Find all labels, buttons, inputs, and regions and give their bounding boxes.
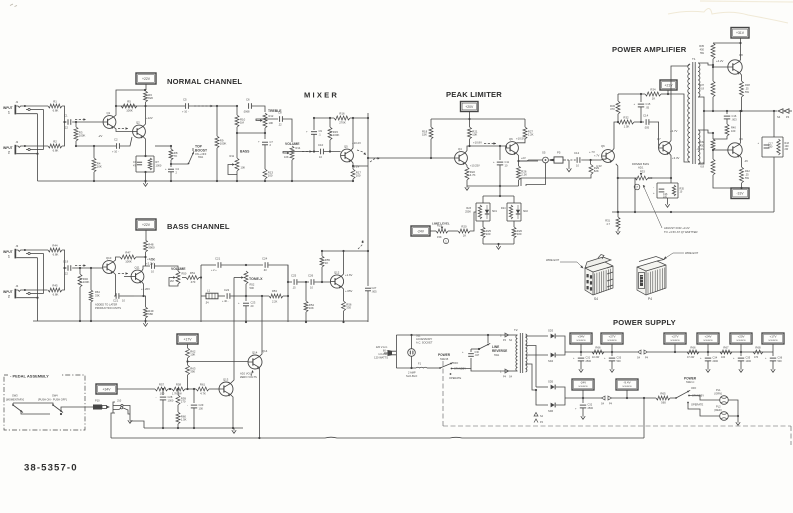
svg-text:PEAK LIMITER: PEAK LIMITER	[446, 90, 502, 99]
svg-text:POWER AMPLIFIER: POWER AMPLIFIER	[612, 45, 687, 54]
wire secondary bottom taps	[698, 130, 713, 133]
fuse F1 2 AMP SLO-BLO	[396, 367, 416, 369]
mid output rail	[713, 110, 774, 112]
transformer T2 core	[519, 333, 521, 373]
wire R20 to limit network	[470, 212, 476, 231]
svg-text:C3: C3	[133, 160, 137, 164]
svg-text:R33: R33	[640, 169, 645, 173]
capacitor C17 180	[764, 144, 770, 146]
svg-text:+31V: +31V	[736, 31, 745, 35]
svg-text:R58: R58	[176, 383, 182, 387]
wire C14 to Q7 base	[650, 122, 659, 148]
svg-text:100: 100	[356, 174, 361, 178]
source box -9.4V	[616, 379, 638, 390]
ground symbol bass channel	[145, 321, 147, 324]
svg-text:+4.2V: +4.2V	[716, 59, 724, 63]
svg-text:10K: 10K	[309, 306, 314, 310]
svg-text:270: 270	[181, 400, 186, 404]
svg-text:R31: R31	[605, 219, 610, 223]
svg-text:+20V: +20V	[737, 334, 744, 338]
svg-text:2.2K: 2.2K	[528, 133, 534, 137]
svg-text:C11: C11	[505, 160, 510, 164]
capacitor C16b 100	[659, 188, 665, 190]
resistor R65 560	[656, 396, 670, 400]
wire R61 to Q13 base	[209, 388, 219, 390]
wire R35 to Q8 base node	[713, 59, 728, 67]
wire -24V to R19	[430, 230, 436, 232]
limit network top split	[483, 195, 514, 197]
svg-text:1000: 1000	[156, 164, 162, 168]
wire SW2-C to lamps	[689, 396, 720, 401]
capacitor C34 2000	[707, 352, 709, 356]
svg-text:SW3: SW3	[12, 394, 18, 398]
svg-text:PL2: PL2	[716, 405, 721, 409]
wire fuse to power switch	[427, 367, 440, 369]
svg-text:R44: R44	[52, 244, 58, 248]
wire Q9 emitter to R42	[740, 156, 742, 168]
svg-text:100K: 100K	[83, 280, 90, 284]
wire +22V box to R6	[145, 84, 147, 90]
svg-text:C24: C24	[262, 257, 268, 261]
voltage box +34V pedal	[96, 384, 117, 394]
wire C11 down to limit network	[499, 165, 501, 196]
wire socket stubs	[411, 335, 413, 349]
wire tone-x wiper down to Q13	[234, 277, 239, 279]
wire Q14 collector up to tone-x middle rail	[259, 296, 262, 356]
svg-text:Q8: Q8	[739, 53, 743, 57]
capacitor C15 .05	[640, 94, 642, 102]
frame C16 R35 bias network	[670, 178, 672, 183]
svg-text:+ 2 +: + 2 +	[211, 269, 217, 272]
wire bass volume wiper to R51	[169, 278, 178, 287]
svg-text:-30.1V: -30.1V	[696, 147, 704, 151]
potentiometer R11 10K bass	[235, 158, 239, 171]
wire R62 to R63 node	[187, 358, 189, 365]
svg-text:500: 500	[617, 360, 622, 363]
capacitor C32 2500	[582, 398, 584, 403]
transistor Q12	[330, 275, 343, 288]
svg-text:R57: R57	[159, 383, 165, 387]
svg-text:C25: C25	[291, 274, 297, 278]
source box +27V	[601, 333, 623, 344]
resistor R38 .25 5W	[740, 81, 744, 97]
svg-text:-: -	[187, 403, 188, 407]
potentiometer R12 10K treble	[263, 113, 267, 128]
svg-text:5W: 5W	[745, 176, 749, 180]
svg-text:R61: R61	[200, 383, 206, 387]
resistor R35 450 5W	[711, 43, 715, 59]
svg-text:+.7V: +.7V	[594, 154, 600, 158]
wire R44/R45 join to C19	[62, 250, 67, 268]
svg-text:R45: R45	[52, 284, 58, 288]
wire Q2 base left to C2	[120, 137, 132, 146]
svg-text:SOURCE: SOURCE	[768, 340, 778, 342]
transistor Q5 mixer	[341, 149, 354, 162]
resistor R49 680	[144, 296, 146, 307]
svg-text:.005: .005	[644, 126, 650, 130]
svg-text:R64: R64	[95, 290, 100, 294]
svg-text:10K: 10K	[284, 155, 289, 159]
svg-text:180: 180	[768, 145, 773, 148]
wire output network to bus	[773, 157, 775, 212]
wire local ground to J10 line	[130, 421, 144, 428]
resistor R40 100	[726, 119, 728, 124]
connector pins transformer primary	[505, 333, 509, 337]
svg-text:C22: C22	[224, 288, 230, 292]
svg-text:250K: 250K	[465, 211, 471, 214]
positive rail	[565, 351, 637, 353]
resistor R9 100K	[216, 106, 218, 136]
svg-text:500: 500	[250, 286, 255, 290]
resistor R22 4.7K	[465, 167, 469, 180]
svg-text:2500: 2500	[586, 360, 592, 363]
resistor R5 100K	[121, 104, 137, 108]
frame R24 SD2	[507, 202, 521, 204]
svg-text:10 2W: 10 2W	[592, 356, 600, 359]
svg-text:C14: C14	[643, 114, 649, 118]
svg-text:R65: R65	[660, 392, 666, 396]
transistor Q13	[219, 382, 233, 396]
svg-text:R5: R5	[127, 100, 131, 104]
svg-text:+22V: +22V	[142, 77, 151, 81]
svg-text:1: 1	[8, 255, 10, 259]
resistor R54 10K	[305, 282, 307, 301]
resistor R26 100	[513, 221, 515, 227]
label PEDAL ASSEMBLY	[8, 372, 60, 378]
voltage box +21V	[660, 80, 677, 90]
transformer T1 core	[692, 62, 694, 164]
wire Q5 collector up	[351, 118, 353, 151]
resistor R47 100K	[120, 255, 136, 259]
svg-text:C10: C10	[318, 143, 324, 147]
wire C1 to Q1 base	[72, 121, 103, 123]
svg-text:6.8: 6.8	[700, 87, 704, 91]
svg-text:+ 10 -: + 10 -	[112, 150, 119, 154]
svg-text:Q6: Q6	[601, 144, 605, 148]
resistor R29 82K	[590, 160, 592, 165]
svg-text:10K: 10K	[472, 133, 477, 137]
svg-text:PRODUCTION UNITS: PRODUCTION UNITS	[95, 306, 121, 310]
voltage box +22V	[136, 73, 156, 84]
resistor R16 270K	[314, 117, 334, 119]
svg-text:270K: 270K	[339, 121, 346, 125]
AC plug	[384, 352, 388, 354]
wire +20V to rail	[469, 112, 471, 119]
svg-text:680: 680	[148, 312, 153, 316]
potentiometer R19 15K limit level	[436, 229, 448, 233]
wire R27 to Q6 collector	[516, 139, 525, 143]
signal flow arrow Q4 to Q6	[484, 143, 496, 145]
ground symbol bias network	[667, 202, 669, 205]
svg-text:C7: C7	[270, 140, 274, 144]
diode SD6	[551, 403, 555, 408]
svg-text:2: 2	[8, 295, 10, 299]
ground symbol limit network	[498, 244, 500, 247]
wire jack1 tip to R1	[47, 105, 50, 107]
svg-text:Q14: Q14	[262, 349, 268, 353]
svg-text:P10: P10	[95, 399, 100, 403]
source box -24V	[572, 379, 594, 390]
adjustment callout 7	[634, 184, 640, 190]
svg-text:-3V: -3V	[744, 159, 748, 163]
wire Q11 emitter down	[134, 282, 144, 297]
bass +20V rail to mixer rail	[322, 250, 368, 252]
jack S5	[543, 157, 549, 163]
svg-text:3900: 3900	[148, 246, 155, 250]
wire bottom rail to -31V box	[713, 175, 741, 188]
connector S6 P6 positive rail	[638, 350, 642, 354]
svg-text:C29: C29	[199, 403, 204, 407]
wire ground rail limiter	[467, 185, 519, 187]
svg-text:C6: C6	[246, 98, 250, 102]
svg-text:38-5357-0: 38-5357-0	[24, 463, 78, 474]
wire C5 to treble network	[189, 105, 237, 107]
svg-text:VOLUME: VOLUME	[285, 142, 300, 146]
svg-text:1K: 1K	[325, 261, 329, 265]
input jack J3 INPUT 1 bass	[15, 249, 17, 259]
wire C6 to treble pot	[252, 106, 265, 112]
main supply vertical	[395, 335, 397, 368]
svg-text:R2: R2	[53, 140, 57, 144]
svg-text:6.8K: 6.8K	[53, 109, 59, 113]
svg-text:R51: R51	[190, 271, 196, 275]
svg-text:OPERATE: OPERATE	[449, 376, 461, 380]
svg-text:C12: C12	[574, 151, 580, 155]
collector rail top	[713, 42, 741, 44]
wire J10 contacts	[123, 406, 130, 419]
potentiometer R33 500 driver bias	[635, 176, 648, 180]
svg-text:100: 100	[663, 196, 668, 199]
svg-text:R20: R20	[461, 225, 467, 229]
svg-text:+27V: +27V	[671, 334, 678, 338]
wire Q8 collector up	[740, 43, 741, 62]
svg-text:1000: 1000	[168, 398, 174, 402]
wire limiter output	[519, 160, 543, 161]
svg-text:15K: 15K	[437, 235, 442, 239]
limiter supply rail	[431, 118, 525, 120]
svg-text:.33: .33	[263, 268, 267, 272]
capacitor C4 2	[170, 164, 172, 167]
wire R18 bottom to input node	[430, 139, 432, 158]
voltage box +20V limiter	[461, 102, 479, 112]
bias wire y178	[618, 177, 635, 179]
transistor Q14	[248, 355, 262, 369]
svg-text:5W: 5W	[745, 90, 749, 94]
wire J10 sleeve down to main bus	[111, 413, 113, 438]
svg-text:1K: 1K	[463, 234, 467, 238]
accessory socket S11	[408, 349, 416, 357]
svg-text:Q11: Q11	[135, 266, 141, 270]
wire tone-x right rail	[287, 265, 289, 322]
wire T1 primary bottom return	[668, 94, 690, 162]
svg-text:ADDED TO LATER: ADDED TO LATER	[95, 303, 117, 307]
wire Q5 emitter to output node	[351, 161, 368, 167]
svg-text:SD6: SD6	[548, 409, 554, 413]
diode SD5	[551, 385, 555, 390]
transistor Q1	[103, 116, 116, 129]
svg-text:NORMAL CHANNEL: NORMAL CHANNEL	[167, 77, 242, 86]
resistor R60 1.5K	[177, 405, 179, 412]
wire jack ring link	[43, 110, 45, 150]
wire R21 to Q4 collector node	[469, 139, 471, 146]
capacitor C9 .1	[313, 118, 315, 130]
capacitor C19 .22	[67, 265, 69, 271]
capacitor C30 .047 line det	[470, 358, 472, 369]
svg-text:100K: 100K	[220, 142, 227, 146]
wire Q6pa emitter down	[616, 164, 618, 178]
ground bus bass channel	[33, 320, 368, 322]
svg-text:R35: R35	[699, 44, 704, 48]
svg-text:100: 100	[486, 232, 491, 236]
resistor R67 100	[720, 350, 732, 354]
resistor R1 6.8K	[48, 104, 62, 108]
resistor R66b 47 2W	[687, 350, 699, 354]
svg-text:SOURCE: SOURCE	[703, 340, 713, 342]
svg-text:1.5K: 1.5K	[624, 125, 630, 129]
capacitor C16 .003	[726, 111, 728, 114]
capacitor C2 10	[116, 143, 118, 149]
svg-text:Q1: Q1	[107, 111, 111, 115]
svg-text:SD5: SD5	[548, 380, 554, 384]
svg-text:2.2K: 2.2K	[272, 300, 278, 304]
svg-text:1.5K: 1.5K	[181, 418, 187, 422]
wire bass jack1 tip to R44	[47, 249, 50, 251]
svg-text:100K: 100K	[125, 260, 132, 264]
wire lamps to ground	[728, 400, 738, 416]
svg-text:4.3V: 4.3V	[596, 164, 602, 168]
wire Q2 emitter down	[143, 137, 146, 157]
resistor R20 1K	[448, 230, 458, 232]
svg-text:120 V.A.C.: 120 V.A.C.	[376, 345, 389, 349]
svg-text:P4: P4	[786, 115, 790, 119]
wire jack2 tip to R2	[47, 145, 50, 147]
wire input to Q4 base	[431, 157, 455, 159]
potentiometer R14 10K volume	[290, 146, 294, 160]
paper crease mark top right	[668, 8, 788, 23]
adjustment callout 1	[443, 238, 448, 243]
svg-text:OFF: OFF	[691, 386, 697, 390]
supply top line	[396, 334, 509, 336]
resistor R31 4.7	[617, 212, 619, 217]
svg-text:6.8K: 6.8K	[53, 149, 59, 153]
transistor Q6 limiter	[506, 142, 519, 155]
source box +24V	[697, 333, 719, 344]
transistor Q10	[103, 261, 116, 274]
svg-text:Q13: Q13	[223, 377, 229, 381]
resistor R56 330	[342, 301, 346, 311]
svg-text:C21: C21	[215, 257, 221, 261]
svg-text:SLO-BLO: SLO-BLO	[406, 374, 417, 378]
svg-text:L1: L1	[207, 289, 211, 293]
transistor Q2	[133, 125, 146, 138]
svg-text:R24: R24	[501, 207, 506, 210]
svg-text:SOURCE: SOURCE	[736, 340, 746, 342]
transistor Q8 output top	[728, 60, 742, 74]
resistor R48 3900	[144, 240, 148, 252]
wire switch to transformer	[452, 369, 510, 372]
svg-text:R52: R52	[250, 283, 255, 287]
svg-text:1000: 1000	[746, 360, 752, 363]
svg-text:R68: R68	[755, 346, 761, 350]
svg-text:S5: S5	[542, 151, 546, 155]
resistor R26a 2.2K	[518, 161, 520, 166]
resistor R17 100	[352, 166, 354, 169]
svg-text:R12: R12	[269, 114, 274, 118]
svg-text:1M: 1M	[240, 121, 245, 125]
svg-text:ADJ.: ADJ.	[638, 166, 644, 170]
svg-text:S11: S11	[416, 334, 421, 338]
wire C19 to Q10 base	[72, 267, 102, 269]
wire Q4 emitter down	[465, 163, 467, 167]
wire rail y106	[116, 105, 185, 107]
svg-text:100: 100	[268, 174, 273, 178]
svg-text:BASS CHANNEL: BASS CHANNEL	[167, 222, 230, 231]
capacitor C28 1000	[168, 388, 172, 390]
secondary taps	[526, 335, 549, 337]
svg-text:TONE-X: TONE-X	[249, 277, 263, 281]
svg-text:INPUT: INPUT	[3, 290, 13, 294]
svg-text:820: 820	[148, 96, 153, 100]
svg-text:C19: C19	[63, 260, 69, 264]
capacitor C29 100	[193, 389, 195, 403]
svg-text:+34V: +34V	[102, 387, 111, 391]
resistor R21 10K	[469, 119, 471, 127]
signal flow arrow after C5	[194, 105, 213, 107]
svg-text:SD1: SD1	[492, 210, 497, 213]
transistor Q4	[455, 152, 468, 165]
svg-text:+2.2V: +2.2V	[146, 262, 154, 266]
wire bass jack sleeves to bus	[37, 258, 39, 298]
svg-text:OPERATE: OPERATE	[691, 403, 703, 407]
wire R40 to Q9 base node	[713, 136, 727, 139]
frame R23 SD1	[476, 202, 490, 204]
svg-text:P4: P4	[648, 297, 652, 301]
svg-text:-9.4V: -9.4V	[623, 380, 630, 384]
voltage box +22V bass	[136, 219, 156, 230]
svg-text:R16: R16	[339, 112, 345, 116]
wire +34V to R57	[117, 388, 155, 390]
svg-text:Q6: Q6	[509, 137, 513, 141]
resistor R44 6.8K	[48, 248, 62, 252]
transistor Q11	[131, 270, 144, 283]
wire mixer output to peak limiter	[368, 157, 431, 159]
transformer T1 secondary bottom winding	[698, 130, 700, 164]
paper speck top left	[10, 4, 17, 7]
svg-text:DRIVER BIAS: DRIVER BIAS	[632, 162, 649, 166]
capacitor C21 10	[115, 293, 117, 299]
svg-text:REVERSE: REVERSE	[492, 349, 507, 353]
svg-text:.54: .54	[205, 301, 209, 305]
svg-text:R34: R34	[650, 88, 656, 92]
svg-text:POWER SUPPLY: POWER SUPPLY	[613, 318, 676, 327]
ground symbol J10	[129, 418, 131, 421]
resistor R63 390	[186, 365, 190, 375]
wire R63 to bias line	[187, 375, 189, 389]
resistor R4 10K	[93, 146, 95, 158]
svg-text:SW4: SW4	[52, 394, 58, 398]
svg-text:R66: R66	[690, 346, 696, 350]
connector S4 3d view	[585, 255, 613, 296]
switch SW1 line reverse	[478, 348, 480, 350]
svg-text:5W: 5W	[700, 51, 704, 55]
svg-text:R67: R67	[723, 346, 729, 350]
resistor R30 470	[617, 94, 619, 101]
main bottom bus	[111, 436, 644, 439]
svg-text:C1: C1	[64, 114, 68, 118]
svg-text:Q12: Q12	[334, 270, 340, 274]
svg-text:INPUT: INPUT	[3, 146, 13, 150]
svg-text:2M: 2M	[170, 279, 174, 283]
